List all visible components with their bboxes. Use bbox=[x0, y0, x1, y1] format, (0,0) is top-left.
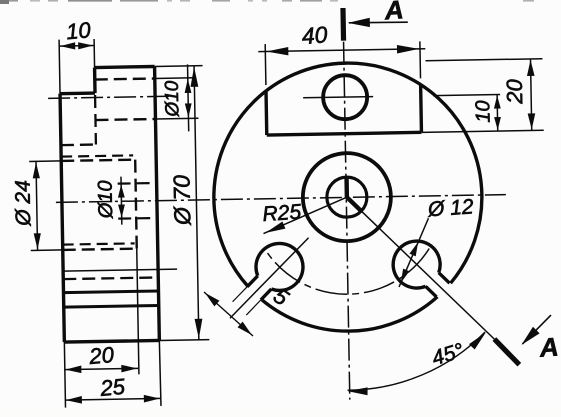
svg-text:R25: R25 bbox=[262, 200, 302, 226]
svg-text:10: 10 bbox=[472, 100, 494, 123]
svg-text:Ø10: Ø10 bbox=[162, 80, 184, 118]
svg-text:A: A bbox=[538, 332, 560, 363]
svg-text:Ø 12: Ø 12 bbox=[426, 195, 474, 221]
svg-text:Ø10: Ø10 bbox=[95, 180, 118, 219]
svg-text:25: 25 bbox=[98, 374, 126, 401]
svg-text:A: A bbox=[383, 0, 405, 26]
svg-text:Ø 70: Ø 70 bbox=[168, 175, 195, 227]
svg-text:20: 20 bbox=[87, 342, 115, 369]
svg-text:40: 40 bbox=[301, 21, 329, 49]
svg-text:20: 20 bbox=[502, 78, 527, 105]
svg-text:Ø 24: Ø 24 bbox=[12, 180, 36, 227]
svg-text:10: 10 bbox=[65, 17, 92, 44]
